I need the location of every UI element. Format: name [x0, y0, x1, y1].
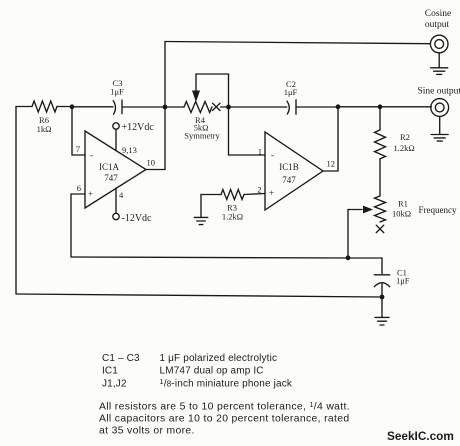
wire bottom feedback line — [16, 294, 382, 297]
value label C3 1uF — [110, 78, 124, 97]
svg-text:7: 7 — [76, 144, 80, 154]
legend component list — [102, 353, 293, 390]
svg-text:IC1A: IC1A — [99, 162, 120, 172]
node D junction — [336, 104, 341, 109]
op-amp U1 IC1A — [85, 131, 146, 208]
value label C1 1uF — [396, 268, 410, 286]
wire node C to IC1B pin 1 — [229, 107, 266, 155]
svg-text:2: 2 — [257, 185, 261, 195]
svg-text:R2: R2 — [400, 132, 410, 142]
ground below C1 — [375, 297, 389, 325]
svg-text:1.2kΩ: 1.2kΩ — [394, 143, 415, 153]
node B junction — [163, 105, 168, 110]
svg-text:1μF: 1μF — [396, 276, 410, 286]
node E junction — [378, 104, 383, 109]
wire IC1A output to riser — [146, 169, 165, 171]
wire pin6 line to node F — [71, 257, 348, 258]
R4 unused terminal X mark — [213, 103, 221, 110]
resistor R2 — [375, 130, 386, 159]
wire IC1A pin 6 loop down — [71, 194, 85, 257]
jack J2 sine output — [431, 99, 449, 117]
svg-text:1μF: 1μF — [110, 87, 124, 97]
pin label 2 — [257, 185, 261, 195]
wire vertical riser from top line to IC1A output — [164, 42, 166, 170]
svg-text:Sine output: Sine output — [418, 87, 460, 97]
svg-text:12: 12 — [327, 159, 336, 169]
svg-text:+: + — [269, 188, 274, 198]
svg-text:Frequency: Frequency — [419, 205, 457, 215]
label Frequency — [419, 205, 457, 215]
label Cosine output — [425, 9, 451, 30]
wire node A to IC1A pin 7 — [72, 107, 85, 155]
wire node B to R4 — [165, 106, 184, 108]
wire left feedback vertical — [15, 107, 17, 295]
wire R1 wiper down to node F — [347, 210, 349, 259]
potentiometer R4 body — [184, 102, 212, 113]
svg-text:1/8-inch miniature phone jack: 1/8-inch miniature phone jack — [160, 377, 293, 390]
value label R4 5k Symmetry — [184, 115, 220, 141]
wire node D to node E — [338, 106, 380, 108]
wire C1 to node G — [381, 284, 383, 297]
wire R2 to R1 — [379, 159, 381, 196]
node F junction — [346, 255, 351, 260]
svg-text:C1 – C3: C1 – C3 — [102, 353, 140, 364]
svg-text:1: 1 — [258, 147, 262, 157]
label +12Vdc — [122, 122, 155, 133]
pin label 6 — [77, 183, 81, 193]
svg-text:Symmetry: Symmetry — [184, 131, 220, 141]
svg-text:IC1: IC1 — [102, 366, 118, 377]
svg-text:Cosine: Cosine — [425, 9, 451, 19]
pin label 4 — [119, 190, 124, 200]
wire top feedback line to cosine jack — [165, 42, 430, 44]
resistor R3 — [221, 190, 244, 200]
svg-text:10: 10 — [147, 158, 156, 168]
svg-text:+12Vdc: +12Vdc — [122, 122, 155, 133]
ground for R3 — [194, 195, 208, 225]
wire ground to R3 — [201, 194, 221, 196]
wire node E to R2 — [379, 107, 381, 130]
node C junction — [226, 105, 231, 110]
label Sine output — [418, 87, 460, 97]
wire R3 to IC1B pin 2 — [244, 194, 265, 195]
op-amp U1 IC1B — [265, 132, 323, 210]
label -12Vdc — [122, 213, 153, 224]
wire R6 to node A — [57, 106, 72, 108]
wire R6 left lead — [16, 106, 32, 108]
value label C2 1uF — [284, 79, 298, 97]
wire C2 to node D — [296, 106, 338, 108]
svg-text:J1,J2: J1,J2 — [102, 379, 127, 390]
wire node C to C2 — [229, 106, 287, 108]
svg-text:-: - — [90, 150, 93, 160]
svg-text:1.2kΩ: 1.2kΩ — [222, 212, 243, 222]
node A junction — [70, 104, 75, 109]
pin label 7 — [76, 144, 80, 154]
svg-text:9,13: 9,13 — [122, 145, 137, 155]
value label R1 10k — [392, 199, 411, 219]
wire node E to sine jack J2 — [380, 106, 431, 108]
pin label 1 — [258, 147, 262, 157]
svg-text:1 μF polarized electrolytic: 1 μF polarized electrolytic — [160, 353, 278, 364]
svg-text:output: output — [425, 20, 450, 30]
potentiometer R1 body — [375, 196, 386, 222]
svg-text:SeekIC.com: SeekIC.com — [387, 429, 454, 443]
svg-text:R1: R1 — [398, 199, 408, 209]
svg-text:10kΩ: 10kΩ — [392, 209, 411, 219]
value label R6 1k — [37, 115, 52, 134]
wire node F to C1 — [348, 258, 382, 274]
R4 wiper arrow and loop to right terminal — [192, 74, 229, 107]
wire IC1B output to node D — [323, 107, 338, 171]
svg-text:IC1B: IC1B — [279, 162, 299, 172]
op-amp IC1B labels — [269, 150, 299, 198]
watermark SeekIC.com — [387, 429, 454, 443]
jack J1 cosine output — [430, 35, 448, 53]
pin label 9,13 — [122, 145, 137, 155]
wire C3 to node B — [122, 106, 165, 108]
capacitor C3 — [113, 100, 122, 114]
legend notes — [99, 402, 350, 437]
svg-text:4: 4 — [119, 190, 124, 200]
svg-text:1μF: 1μF — [284, 87, 298, 97]
svg-text:at 35 volts or more.: at 35 volts or more. — [99, 426, 195, 437]
R1 wiper arrow — [348, 206, 373, 214]
capacitor C2 — [287, 100, 296, 114]
op-amp IC1A labels — [88, 150, 120, 199]
svg-text:LM747 dual op amp IC: LM747 dual op amp IC — [160, 366, 264, 377]
svg-text:All resistors are 5 to 10 perc: All resistors are 5 to 10 percent tolera… — [99, 402, 350, 413]
pin label 10 — [147, 158, 156, 168]
node G junction — [380, 295, 385, 300]
-12V supply terminal — [113, 188, 119, 220]
wire R4 to node C — [221, 106, 229, 108]
ground below J2 — [431, 116, 448, 141]
+12V supply terminal — [113, 123, 119, 151]
svg-text:+: + — [88, 189, 93, 199]
wire node A to C3 — [72, 106, 113, 108]
pin label 12 — [327, 159, 336, 169]
svg-text:-: - — [271, 150, 274, 160]
ground below J1 — [431, 53, 448, 75]
value label R2 1.2k — [394, 132, 415, 153]
svg-text:All capacitors are 10 to 20 pe: All capacitors are 10 to 20 percent tole… — [99, 414, 349, 425]
svg-text:1kΩ: 1kΩ — [37, 124, 52, 134]
resistor R6 — [32, 101, 57, 112]
svg-text:-12Vdc: -12Vdc — [122, 213, 153, 224]
svg-text:747: 747 — [104, 173, 118, 183]
svg-text:747: 747 — [282, 175, 296, 185]
value label R3 1.2k — [222, 203, 243, 222]
R1 unused terminal X mark — [376, 225, 383, 232]
svg-text:6: 6 — [77, 183, 81, 193]
capacitor C1 — [374, 275, 389, 287]
